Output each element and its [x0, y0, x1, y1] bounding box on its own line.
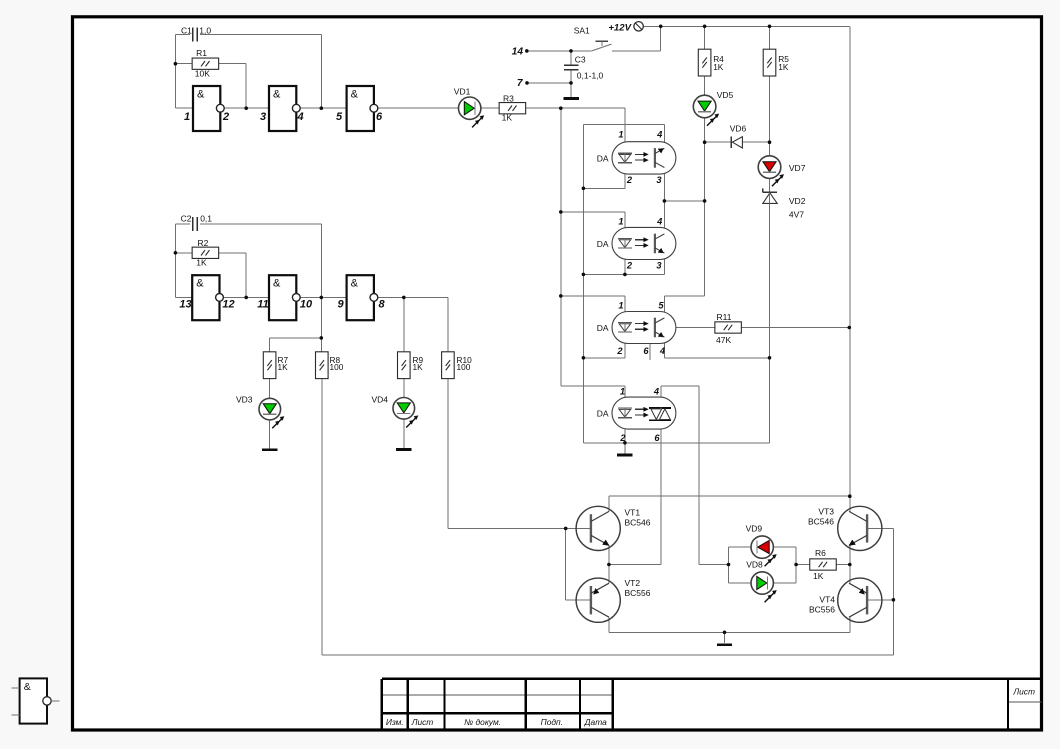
svg-text:VD3: VD3	[236, 394, 253, 404]
svg-text:8: 8	[378, 298, 385, 310]
svg-text:VD4: VD4	[372, 394, 389, 404]
svg-text:1K: 1K	[813, 571, 824, 581]
svg-text:VD7: VD7	[789, 163, 806, 173]
svg-text:VT4: VT4	[819, 594, 835, 604]
svg-text:VD5: VD5	[717, 90, 734, 100]
svg-text:DA: DA	[597, 323, 609, 333]
svg-text:14: 14	[512, 46, 524, 57]
svg-text:№ докум.: № докум.	[464, 717, 501, 727]
svg-text:C2: C2	[181, 213, 192, 223]
svg-text:&: &	[351, 278, 359, 290]
svg-text:11: 11	[257, 298, 268, 310]
svg-text:Подп.: Подп.	[541, 717, 563, 727]
svg-text:5: 5	[658, 301, 664, 311]
svg-text:10: 10	[300, 298, 313, 310]
svg-text:1: 1	[184, 111, 190, 123]
svg-text:2: 2	[626, 175, 633, 185]
svg-text:4: 4	[296, 111, 303, 123]
svg-text:VD8: VD8	[746, 560, 763, 570]
svg-text:&: &	[273, 88, 281, 100]
svg-text:1: 1	[618, 217, 623, 227]
svg-text:4: 4	[659, 346, 666, 356]
svg-text:&: &	[24, 681, 31, 693]
svg-text:1K: 1K	[713, 62, 724, 72]
svg-text:1K: 1K	[502, 112, 513, 122]
svg-text:R3: R3	[503, 93, 514, 103]
svg-text:3: 3	[656, 260, 662, 270]
svg-text:DA: DA	[597, 153, 609, 163]
svg-text:1K: 1K	[413, 362, 424, 372]
svg-text:VT1: VT1	[625, 507, 641, 517]
svg-text:&: &	[197, 88, 205, 100]
svg-text:6: 6	[654, 433, 660, 443]
svg-text:6: 6	[376, 111, 383, 123]
svg-text:Лист: Лист	[411, 717, 434, 727]
svg-text:R2: R2	[198, 238, 209, 248]
svg-text:R1: R1	[196, 48, 207, 58]
svg-text:C3: C3	[575, 55, 586, 65]
svg-text:R6: R6	[815, 548, 826, 558]
svg-text:4: 4	[656, 130, 663, 140]
svg-text:1: 1	[618, 301, 623, 311]
svg-text:VD2: VD2	[789, 196, 806, 206]
svg-text:Лист: Лист	[1012, 687, 1035, 697]
svg-text:&: &	[196, 278, 204, 290]
svg-text:47K: 47K	[716, 335, 731, 345]
svg-text:1K: 1K	[778, 62, 789, 72]
svg-text:+12V: +12V	[608, 22, 632, 33]
svg-text:BC546: BC546	[625, 517, 651, 527]
svg-text:4: 4	[656, 217, 663, 227]
svg-text:2: 2	[626, 260, 633, 270]
svg-text:SA1: SA1	[574, 26, 590, 36]
svg-text:6: 6	[643, 346, 649, 356]
svg-text:DA: DA	[597, 239, 609, 249]
svg-text:1: 1	[620, 386, 625, 396]
svg-text:10K: 10K	[195, 68, 210, 78]
svg-text:DA: DA	[597, 409, 609, 419]
svg-text:12: 12	[222, 298, 234, 310]
svg-text:VT2: VT2	[625, 578, 641, 588]
svg-text:4V7: 4V7	[789, 210, 804, 220]
svg-text:1: 1	[618, 130, 623, 140]
svg-text:2: 2	[619, 433, 626, 443]
svg-text:C1: C1	[181, 26, 192, 36]
svg-text:5: 5	[336, 111, 343, 123]
svg-text:3: 3	[260, 111, 266, 123]
svg-text:2: 2	[222, 111, 229, 123]
svg-text:13: 13	[179, 298, 191, 310]
svg-text:BC556: BC556	[625, 588, 651, 598]
svg-text:BC556: BC556	[809, 605, 835, 615]
svg-text:&: &	[351, 88, 359, 100]
svg-text:9: 9	[337, 298, 344, 310]
svg-text:1,0: 1,0	[199, 26, 211, 36]
svg-text:4: 4	[653, 386, 660, 396]
svg-text:&: &	[273, 278, 281, 290]
svg-text:VD1: VD1	[454, 86, 471, 96]
svg-text:0,1-1,0: 0,1-1,0	[577, 71, 604, 81]
svg-text:0,1: 0,1	[200, 213, 212, 223]
svg-text:Дата: Дата	[584, 717, 607, 727]
svg-text:1K: 1K	[278, 362, 289, 372]
svg-text:100: 100	[457, 362, 471, 372]
svg-text:VD6: VD6	[730, 124, 747, 134]
svg-text:3: 3	[656, 175, 662, 185]
svg-text:R11: R11	[717, 312, 732, 322]
svg-text:BC546: BC546	[808, 517, 834, 527]
svg-text:100: 100	[330, 362, 344, 372]
svg-text:VD9: VD9	[746, 524, 763, 534]
svg-text:VT3: VT3	[818, 507, 834, 517]
svg-text:2: 2	[616, 346, 623, 356]
svg-text:Изм.: Изм.	[386, 717, 404, 727]
svg-text:1K: 1K	[196, 258, 207, 268]
